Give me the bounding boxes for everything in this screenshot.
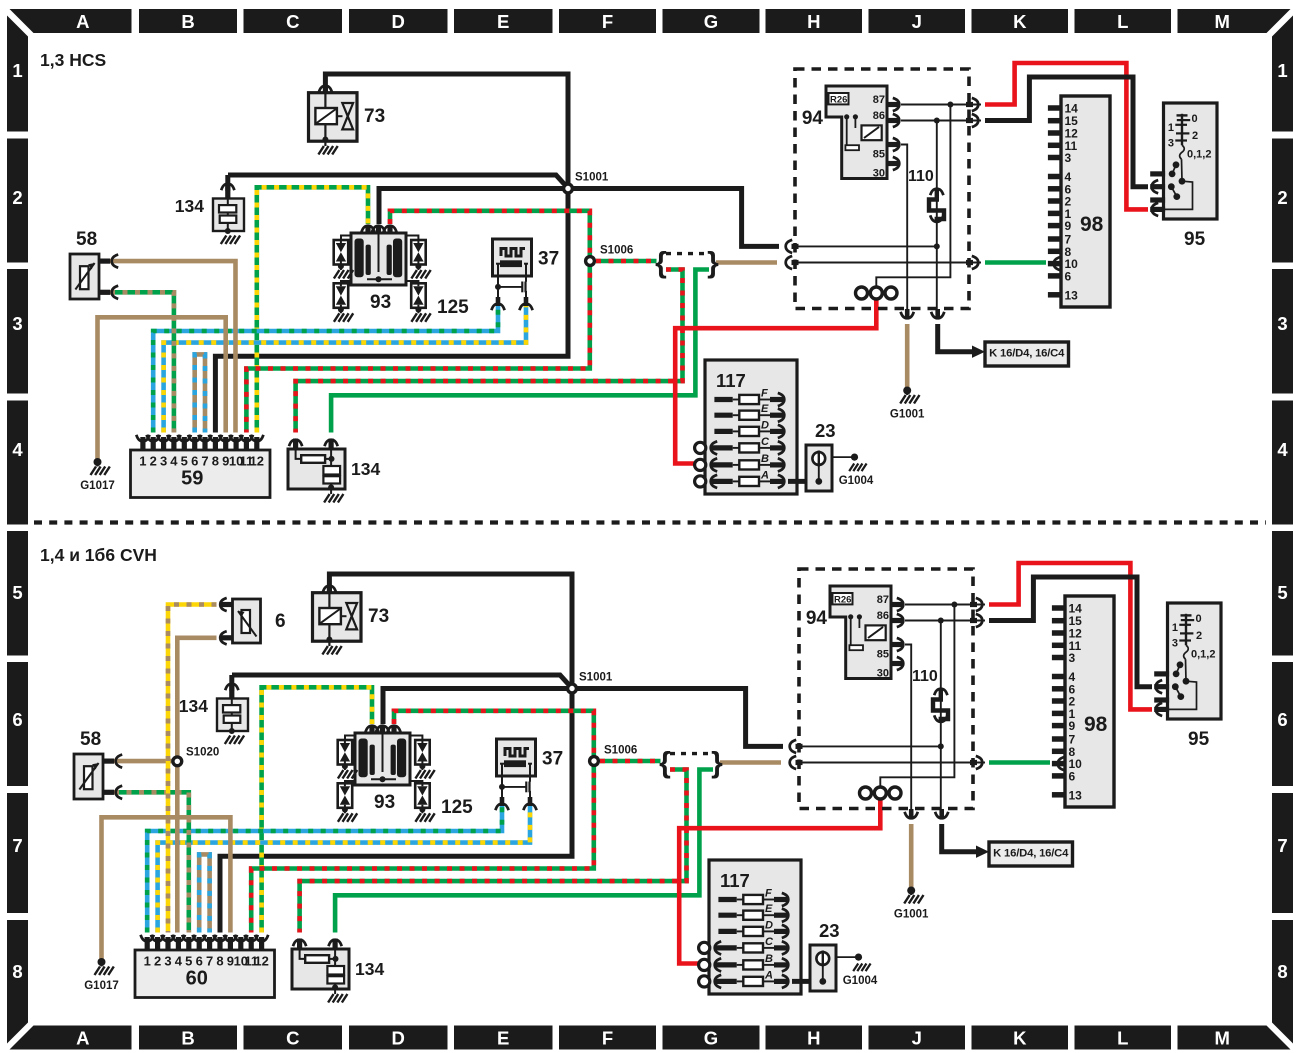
spark plugs 125 — [338, 736, 473, 822]
svg-text:K 16/D4, 16/C4: K 16/D4, 16/C4 — [989, 348, 1065, 360]
svg-text:8: 8 — [1277, 961, 1287, 982]
wire: S1001 right to module connector — [572, 689, 783, 747]
wire: relay 86 link — [795, 118, 981, 310]
wire: blue/green sensor 37 to pin 1 — [147, 805, 502, 933]
svg-text:6: 6 — [191, 454, 198, 469]
wire: green connector to suppressor 134 right — [335, 770, 713, 933]
svg-text:{: { — [659, 747, 671, 780]
svg-text:}: } — [711, 747, 723, 780]
ground G1017 — [84, 958, 119, 992]
svg-text:E: E — [765, 903, 773, 915]
node S1001 junction circle — [564, 172, 609, 193]
svg-text:A: A — [764, 969, 773, 981]
svg-text:F: F — [602, 1028, 613, 1049]
wire: relay 87 link — [880, 602, 985, 787]
svg-text:G: G — [704, 11, 718, 32]
svg-text:0: 0 — [1196, 613, 1202, 625]
svg-text:9: 9 — [1069, 719, 1076, 733]
svg-text:6: 6 — [1277, 709, 1287, 730]
wire: black relay 86 to switch 95 — [985, 77, 1148, 187]
svg-text:73: 73 — [364, 106, 385, 127]
svg-text:C: C — [286, 1028, 299, 1049]
wire: brown module to ground G1001 — [909, 824, 914, 891]
connector block 60 — [135, 935, 275, 998]
svg-text:37: 37 — [538, 249, 559, 270]
ignition coil 93 — [355, 726, 410, 813]
svg-text:1: 1 — [144, 954, 151, 969]
plug lead block 117 — [699, 860, 801, 994]
svg-text:3: 3 — [1168, 138, 1174, 150]
svg-text:E: E — [761, 403, 769, 415]
svg-text:S1006: S1006 — [600, 245, 633, 257]
suppressor 23 — [788, 420, 855, 491]
wire: green/red S1006 to inline connector — [596, 259, 657, 264]
svg-text:{: { — [655, 247, 667, 280]
svg-text:8: 8 — [12, 961, 22, 982]
svg-text:30: 30 — [873, 167, 885, 179]
plug lead block 117 — [695, 360, 797, 494]
svg-text:B: B — [765, 953, 773, 965]
svg-text:G1001: G1001 — [890, 409, 925, 421]
module connector circles — [860, 787, 902, 799]
wire: brown sensor 58 to pin 10 — [110, 261, 236, 432]
svg-text:134: 134 — [175, 196, 204, 216]
relay 94 — [806, 586, 903, 679]
svg-text:3: 3 — [160, 454, 167, 469]
svg-text:95: 95 — [1184, 229, 1206, 250]
wire: S1001 down to connector pin 8 — [220, 689, 572, 933]
svg-text:4: 4 — [12, 439, 23, 460]
module edge arrows — [786, 98, 979, 319]
ground G1017 — [80, 458, 115, 492]
module edge arrows — [790, 598, 983, 819]
svg-text:59: 59 — [181, 468, 203, 490]
spark plugs 125 — [334, 236, 469, 322]
wire: brown heater 6 through S1020 to pin 4 — [177, 638, 216, 933]
wire: S1001 right to module connector — [568, 189, 779, 247]
svg-text:H: H — [807, 11, 820, 32]
svg-text:5: 5 — [12, 582, 22, 603]
svg-text:117: 117 — [720, 870, 750, 891]
ground G1004 — [843, 954, 878, 988]
svg-text:1: 1 — [1277, 60, 1287, 81]
svg-text:L: L — [1117, 11, 1128, 32]
module dashed enclosure — [795, 69, 969, 309]
svg-text:94: 94 — [802, 108, 824, 129]
wire: red module to plug block 117 B — [675, 299, 876, 464]
carburettor heater 6 — [220, 598, 285, 644]
svg-text:J: J — [912, 1028, 922, 1049]
dotted half separator — [34, 520, 1266, 524]
wire: relay 85 link to G1001 — [901, 145, 907, 310]
valve 73 (fuel cut-off) — [309, 86, 386, 155]
control unit 98 — [1048, 96, 1110, 307]
svg-text:6: 6 — [1069, 769, 1076, 783]
wire: brown connector to module box — [720, 760, 781, 765]
svg-text:G: G — [704, 1028, 718, 1049]
wire: valve 73 feed to S1001 — [329, 574, 572, 684]
hall sensor 37 — [495, 739, 563, 810]
svg-text:12: 12 — [254, 954, 268, 969]
wire: relay 86 link — [799, 618, 985, 810]
wire: blue/yellow sensor 37 to pin 3 — [164, 305, 526, 433]
svg-text:B: B — [761, 453, 769, 465]
wire: brown sensor 58 to node S1020 — [114, 759, 177, 764]
node S1006 — [590, 745, 638, 766]
module dashed enclosure — [799, 569, 973, 809]
suppressor 134 (breaker capacitor) — [292, 939, 384, 1003]
node S1001 — [232, 675, 570, 686]
svg-text:B: B — [181, 11, 194, 32]
svg-text:A: A — [76, 11, 89, 32]
svg-text:L: L — [1117, 1028, 1128, 1049]
svg-text:58: 58 — [76, 229, 97, 250]
svg-text:134: 134 — [179, 696, 208, 716]
svg-text:4: 4 — [1277, 439, 1288, 460]
svg-text:3: 3 — [12, 313, 22, 334]
svg-text:13: 13 — [1069, 788, 1083, 802]
svg-text:2: 2 — [1196, 630, 1202, 642]
wire: valve 73 feed to S1001 — [325, 74, 568, 184]
svg-text:G1017: G1017 — [80, 480, 115, 492]
svg-text:1: 1 — [1172, 622, 1178, 634]
svg-text:F: F — [602, 11, 613, 32]
wire: red relay 87 feed to switch 95 — [985, 63, 1148, 209]
wire: black tachometer lead to K16/D4 — [938, 324, 972, 352]
svg-text:110: 110 — [908, 168, 934, 185]
ground G1004 — [839, 454, 874, 488]
svg-text:0,1,2: 0,1,2 — [1191, 649, 1215, 661]
svg-text:1,3 HCS: 1,3 HCS — [40, 50, 106, 70]
svg-text:D: D — [392, 11, 405, 32]
wire: black relay 86 to switch 95 — [989, 577, 1152, 687]
wire: green/red coil to S1006 and pin 11 — [246, 211, 589, 433]
svg-text:6: 6 — [275, 611, 286, 632]
control unit 98 — [1052, 596, 1114, 807]
svg-text:8: 8 — [216, 954, 223, 969]
hall sensor 37 — [491, 239, 559, 310]
svg-text:J: J — [912, 11, 922, 32]
wire: S1001 to coil 93 primary — [383, 689, 572, 725]
wire: green/red S1006 to inline connector — [600, 759, 661, 764]
svg-text:12: 12 — [250, 454, 264, 469]
svg-text:3: 3 — [1172, 638, 1178, 650]
svg-text:D: D — [765, 919, 773, 931]
svg-text:2: 2 — [1192, 130, 1198, 142]
svg-text:C: C — [286, 11, 299, 32]
wire: brown ground G1017 to pin 9 — [102, 817, 231, 962]
wire: blue/yellow sensor 37 to pin 2 — [158, 805, 530, 933]
wire: blue/brown loop pins 6-7 — [199, 854, 209, 932]
suppressor 134 (coil capacitor) — [179, 675, 248, 744]
ground G1001 — [894, 887, 929, 921]
svg-text:6: 6 — [196, 954, 203, 969]
svg-text:G1004: G1004 — [843, 975, 878, 987]
svg-text:S1006: S1006 — [604, 745, 637, 757]
svg-text:5: 5 — [1277, 582, 1287, 603]
svg-text:F: F — [765, 888, 772, 900]
wire: green/brown sensor 58 to pin 5 — [114, 792, 189, 932]
svg-text:D: D — [761, 419, 769, 431]
svg-text:117: 117 — [716, 370, 746, 391]
wire: brown ground G1017 to pin 9 — [98, 317, 226, 462]
wire: blue/green sensor 37 to pin 2 — [153, 305, 498, 433]
svg-text:M: M — [1214, 11, 1229, 32]
svg-text:87: 87 — [873, 94, 885, 106]
svg-text:1: 1 — [139, 454, 146, 469]
wire: blue/brown loop pins 6-7 — [195, 354, 205, 432]
wire: green module to unit 98 pin 10 — [989, 760, 1050, 765]
svg-text:60: 60 — [186, 968, 208, 990]
svg-text:85: 85 — [877, 648, 889, 660]
svg-text:13: 13 — [1065, 288, 1079, 302]
resistor 110 — [912, 668, 948, 722]
svg-text:B: B — [181, 1028, 194, 1049]
svg-text:23: 23 — [819, 920, 840, 941]
wire: brown connector to module box — [716, 260, 777, 265]
svg-text:S1001: S1001 — [575, 172, 609, 184]
svg-text:G1017: G1017 — [84, 980, 119, 992]
svg-text:110: 110 — [912, 668, 938, 685]
suppressor 134 (breaker capacitor) — [288, 439, 380, 503]
svg-text:134: 134 — [355, 959, 384, 979]
svg-text:C: C — [765, 936, 774, 948]
svg-text:93: 93 — [370, 292, 391, 313]
svg-text:C: C — [761, 436, 770, 448]
svg-text:K 16/D4, 16/C4: K 16/D4, 16/C4 — [993, 848, 1069, 860]
svg-text:E: E — [497, 1028, 509, 1049]
node S1001 junction circle — [568, 672, 613, 693]
ignition switch 95 — [1154, 603, 1221, 750]
svg-text:F: F — [761, 388, 768, 400]
svg-text:}: } — [707, 247, 719, 280]
svg-text:87: 87 — [877, 594, 889, 606]
svg-text:S1001: S1001 — [579, 672, 613, 684]
svg-text:134: 134 — [351, 459, 380, 479]
wire: green connector to suppressor 134 right — [331, 270, 709, 433]
wire: module through-link to 98 pin 10 — [799, 762, 985, 764]
wire: S1001 to coil 93 primary — [379, 189, 568, 225]
svg-text:1,4 и 1б6 CVH: 1,4 и 1б6 CVH — [40, 545, 157, 565]
svg-text:3: 3 — [164, 954, 171, 969]
svg-text:H: H — [807, 1028, 820, 1049]
wire: S1001 down to connector pin 8 — [215, 189, 568, 433]
svg-text:0,1,2: 0,1,2 — [1187, 149, 1211, 161]
svg-text:6: 6 — [1065, 269, 1072, 283]
svg-text:R26: R26 — [834, 595, 851, 606]
svg-text:3: 3 — [1065, 151, 1072, 165]
svg-text:125: 125 — [441, 797, 473, 818]
svg-text:2: 2 — [154, 954, 161, 969]
svg-text:8: 8 — [212, 454, 219, 469]
svg-text:0: 0 — [1192, 113, 1198, 125]
svg-text:3: 3 — [1277, 313, 1287, 334]
svg-text:1: 1 — [12, 60, 22, 81]
wire: green module to unit 98 pin 10 — [985, 260, 1046, 265]
svg-text:86: 86 — [877, 610, 889, 622]
svg-text:E: E — [497, 11, 509, 32]
svg-text:3: 3 — [1069, 651, 1076, 665]
svg-text:30: 30 — [877, 667, 889, 679]
temperature sensor 58 — [70, 229, 118, 299]
svg-text:98: 98 — [1084, 713, 1108, 736]
wire: green/red connector to suppressor 134 left — [300, 770, 687, 933]
svg-text:86: 86 — [873, 110, 885, 122]
svg-text:4: 4 — [170, 454, 178, 469]
svg-text:37: 37 — [542, 749, 563, 770]
svg-text:A: A — [760, 469, 769, 481]
wire: relay 87 link — [876, 102, 981, 287]
wire tag K 16/D4, 16/C4 — [976, 842, 1073, 866]
svg-text:5: 5 — [181, 454, 188, 469]
svg-text:98: 98 — [1080, 213, 1104, 236]
node S1020 — [173, 747, 219, 766]
svg-text:93: 93 — [374, 792, 395, 813]
wire: green/yellow coil feed to pin 12 — [257, 187, 368, 432]
ignition switch 95 — [1150, 103, 1217, 250]
svg-text:58: 58 — [80, 729, 101, 750]
svg-text:7: 7 — [206, 954, 213, 969]
wire: red module to plug block 117 B — [679, 799, 880, 964]
wire: relay 85 link to G1001 — [905, 645, 911, 810]
svg-text:M: M — [1214, 1028, 1229, 1049]
svg-text:G1001: G1001 — [894, 909, 929, 921]
svg-text:4: 4 — [175, 954, 183, 969]
resistor 110 — [908, 168, 944, 222]
wire: green/red connector to suppressor 134 left — [296, 270, 683, 433]
valve 73 (fuel cut-off) — [313, 586, 390, 655]
svg-text:73: 73 — [368, 606, 389, 627]
svg-text:D: D — [392, 1028, 405, 1049]
wire: brown module to ground G1001 — [905, 324, 910, 391]
node S1001 — [228, 175, 566, 186]
svg-text:9: 9 — [1065, 219, 1072, 233]
svg-text:7: 7 — [201, 454, 208, 469]
wire: green/red coil to S1006 and pin 11 — [251, 711, 594, 933]
svg-text:125: 125 — [437, 297, 469, 318]
svg-text:6: 6 — [12, 709, 22, 730]
ground G1001 — [890, 387, 925, 421]
svg-text:K: K — [1013, 1028, 1027, 1049]
wire tag K 16/D4, 16/C4 — [972, 342, 1069, 366]
svg-text:7: 7 — [12, 835, 22, 856]
svg-text:23: 23 — [815, 420, 836, 441]
svg-text:1: 1 — [1168, 122, 1174, 134]
svg-text:R26: R26 — [830, 95, 847, 106]
ignition coil 93 — [351, 226, 406, 313]
wire: green/brown sensor 58 to pin 4 — [110, 292, 174, 432]
wire: module through-link to 98 pin 10 — [795, 262, 981, 264]
svg-text:5: 5 — [185, 954, 192, 969]
svg-text:94: 94 — [806, 608, 828, 629]
svg-text:2: 2 — [1277, 187, 1287, 208]
svg-text:A: A — [76, 1028, 89, 1049]
svg-text:K: K — [1013, 11, 1027, 32]
inline connector (harness junction) — [659, 747, 723, 780]
suppressor 134 (coil capacitor) — [175, 175, 244, 244]
svg-text:7: 7 — [1277, 835, 1287, 856]
module connector circles — [856, 287, 898, 299]
wire: green/yellow coil feed to pin 12 — [262, 687, 372, 932]
wire: yellow/brown heater 6 to pin 3 — [168, 605, 217, 933]
suppressor 23 — [792, 920, 859, 991]
relay 94 — [802, 86, 899, 179]
svg-text:S1020: S1020 — [186, 747, 219, 759]
connector block 59 — [131, 435, 271, 498]
svg-text:85: 85 — [873, 148, 885, 160]
wire: red relay 87 feed to switch 95 — [989, 563, 1152, 709]
svg-text:2: 2 — [12, 187, 22, 208]
svg-text:G1004: G1004 — [839, 475, 874, 487]
svg-text:95: 95 — [1188, 729, 1210, 750]
temperature sensor 58 — [74, 729, 122, 799]
wire: black tachometer lead to K16/D4 — [942, 824, 976, 852]
svg-text:2: 2 — [150, 454, 157, 469]
node S1006 — [586, 245, 634, 266]
inline connector (harness junction) — [655, 247, 719, 280]
